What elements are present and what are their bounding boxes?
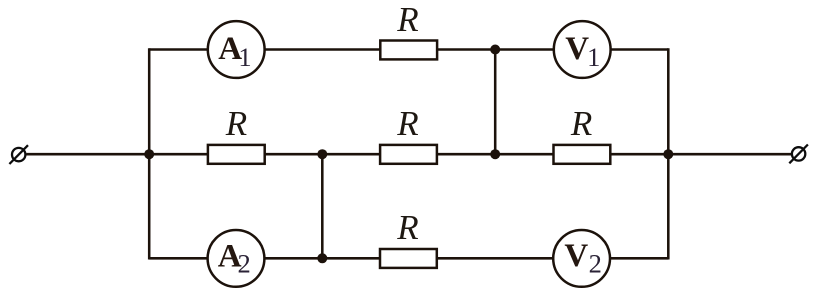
svg-text:1: 1: [587, 42, 600, 72]
svg-text:V: V: [564, 238, 588, 274]
svg-text:R: R: [396, 208, 418, 247]
svg-text:R: R: [396, 0, 418, 39]
svg-text:R: R: [570, 104, 592, 143]
svg-text:2: 2: [589, 249, 602, 279]
svg-text:V: V: [565, 31, 589, 67]
svg-text:1: 1: [238, 42, 251, 72]
svg-text:R: R: [396, 104, 418, 143]
svg-text:R: R: [225, 104, 247, 143]
svg-text:2: 2: [238, 249, 251, 279]
